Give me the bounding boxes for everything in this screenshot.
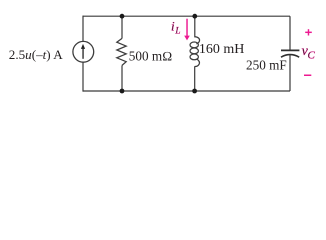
wire resistor top	[121, 16, 123, 38]
svg-text:C: C	[308, 50, 316, 62]
node dot top resistor	[120, 14, 125, 19]
label minus (magenta)	[304, 75, 311, 77]
capacitor C curved plate	[281, 55, 299, 58]
label + (magenta)	[305, 29, 312, 35]
current source arrow	[81, 44, 85, 59]
svg-text:500 mΩ: 500 mΩ	[129, 48, 172, 63]
node dot top inductor	[192, 14, 197, 19]
capacitor C top plate	[281, 49, 299, 51]
node dot bottom resistor	[120, 89, 125, 94]
resistor R 500 mOhm zigzag	[117, 38, 126, 65]
svg-text:i: i	[171, 19, 175, 34]
node dot bottom inductor	[192, 89, 197, 94]
wire capacitor bottom	[289, 55, 291, 91]
wire inductor top	[194, 16, 196, 37]
wire resistor bottom	[121, 65, 123, 91]
current source I1 circle	[73, 41, 94, 62]
current iL arrow (magenta)	[184, 19, 190, 41]
wire bottom	[83, 90, 290, 92]
svg-text:160 mH: 160 mH	[199, 42, 245, 57]
wire left lower	[82, 62, 84, 91]
svg-text:2.5u(–t) A: 2.5u(–t) A	[9, 47, 63, 62]
wire top	[83, 15, 290, 17]
svg-text:L: L	[174, 26, 180, 36]
wire left upper	[82, 16, 84, 42]
wire inductor bottom	[194, 66, 196, 91]
wire capacitor top	[289, 16, 291, 50]
svg-text:250 mF: 250 mF	[246, 58, 287, 73]
inductor L 160 mH coil	[190, 37, 200, 67]
